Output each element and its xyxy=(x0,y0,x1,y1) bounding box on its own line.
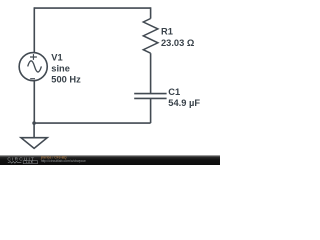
wire right lower xyxy=(150,98,152,123)
capacitor C1 xyxy=(134,94,166,99)
wire right upper xyxy=(150,7,152,18)
wire right middle xyxy=(150,53,152,93)
watermark bar xyxy=(0,155,220,165)
wire bottom xyxy=(34,122,150,124)
svg-text:500 Hz: 500 Hz xyxy=(51,74,81,84)
ground xyxy=(21,123,47,148)
wire top xyxy=(34,7,150,9)
svg-text:C1: C1 xyxy=(168,87,180,97)
wire left lower xyxy=(33,80,35,123)
watermark logo LAB xyxy=(8,160,38,164)
svg-text:LAB: LAB xyxy=(26,160,34,164)
wire left upper xyxy=(33,7,35,53)
svg-text:R1: R1 xyxy=(161,27,173,37)
node junction xyxy=(32,121,36,125)
svg-text:54.9 µF: 54.9 µF xyxy=(168,98,200,108)
svg-text:sine: sine xyxy=(51,64,70,74)
svg-text:23.03 Ω: 23.03 Ω xyxy=(161,38,195,48)
svg-text:V1: V1 xyxy=(51,52,62,62)
svg-text:http://circuitlab.com/c/cbwpcw: http://circuitlab.com/c/cbwpcw xyxy=(41,159,86,163)
resistor R1 xyxy=(143,19,158,54)
voltage source V1 xyxy=(19,53,47,81)
